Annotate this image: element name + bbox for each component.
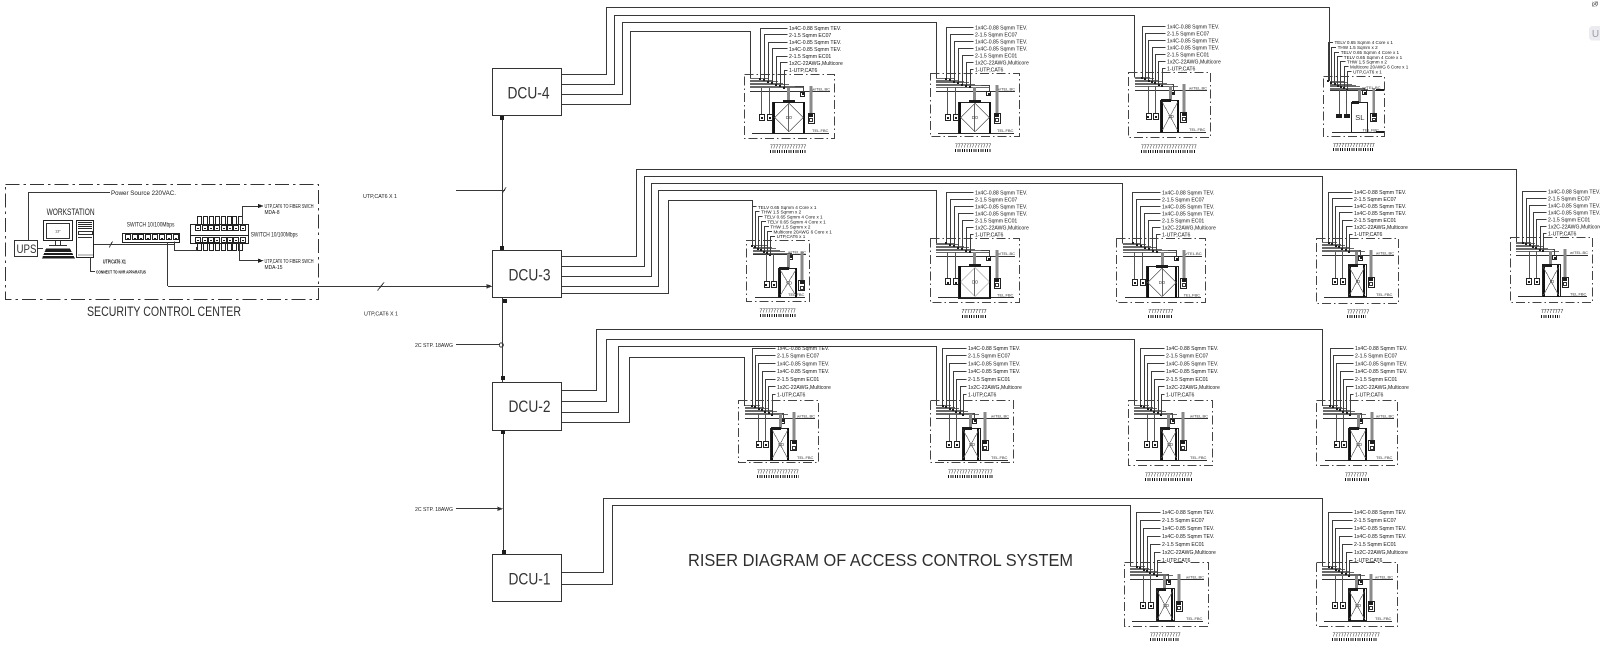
svg-text:7777777777777: 7777777777777	[955, 144, 991, 150]
svg-text:1x4C-0.85 Sqmm TEV.: 1x4C-0.85 Sqmm TEV.	[975, 204, 1027, 210]
svg-text:w/TEL.BC: w/TEL.BC	[997, 86, 1015, 91]
svg-text:TEL.FBC: TEL.FBC	[991, 455, 1008, 460]
svg-text:ID: ID	[1356, 279, 1361, 284]
svg-text:SL: SL	[1355, 113, 1364, 122]
svg-text:UTP,CAT6 x 1: UTP,CAT6 x 1	[1353, 70, 1382, 75]
svg-text:2-1.5 Sqmm EC01: 2-1.5 Sqmm EC01	[1162, 542, 1204, 548]
svg-text:2-1.5 Sqmm EC01: 2-1.5 Sqmm EC01	[789, 54, 831, 60]
svg-text:1x4C-0.85 Sqmm TEV.: 1x4C-0.85 Sqmm TEV.	[1354, 526, 1406, 532]
svg-text:DO: DO	[786, 115, 793, 120]
svg-text:TEL.FBC: TEL.FBC	[1186, 616, 1203, 621]
svg-text:DCU-2: DCU-2	[509, 398, 551, 416]
svg-text:UTP/CAT6 X1: UTP/CAT6 X1	[103, 259, 126, 265]
svg-text:2C STP. 18AWG: 2C STP. 18AWG	[415, 343, 453, 349]
svg-text:TEL.FBC: TEL.FBC	[1375, 616, 1392, 621]
svg-text:1-UTP,CAT6: 1-UTP,CAT6	[1354, 232, 1383, 238]
svg-text:1-UTP,CAT6: 1-UTP,CAT6	[975, 68, 1004, 74]
svg-text:2-1.5 Sqmm EC07: 2-1.5 Sqmm EC07	[968, 354, 1010, 360]
svg-text:1x4C-0.85 Sqmm TEV.: 1x4C-0.85 Sqmm TEV.	[1354, 534, 1406, 540]
svg-text:1-UTP,CAT6: 1-UTP,CAT6	[1354, 558, 1383, 564]
svg-text:1x4C-0.85 Sqmm TEV.: 1x4C-0.85 Sqmm TEV.	[1167, 46, 1219, 52]
svg-text:w/TEL.BC: w/TEL.BC	[1570, 250, 1588, 255]
svg-text:TEL.FBC: TEL.FBC	[1189, 127, 1206, 132]
svg-text:TEL.FBC: TEL.FBC	[997, 128, 1014, 133]
svg-text:DCU-4: DCU-4	[508, 85, 550, 103]
svg-text:1x4C-0.85 Sqmm TEV.: 1x4C-0.85 Sqmm TEV.	[1354, 204, 1406, 210]
svg-text:w/TEL.BC: w/TEL.BC	[812, 87, 830, 92]
svg-text:1x4C-0.88 Sqmm TEV.: 1x4C-0.88 Sqmm TEV.	[1162, 190, 1214, 196]
svg-text:777777777: 777777777	[962, 309, 987, 315]
svg-text:WORKSTATION: WORKSTATION	[47, 207, 95, 217]
svg-text:CONNECT TO NVR APPARATUS: CONNECT TO NVR APPARATUS	[96, 269, 146, 274]
svg-text:1x4C-0.85 Sqmm TEV.: 1x4C-0.85 Sqmm TEV.	[1167, 39, 1219, 45]
svg-text:SD: SD	[786, 280, 793, 285]
svg-text:1x2C-22AWG,Multicore: 1x2C-22AWG,Multicore	[777, 385, 831, 391]
svg-text:77777777777777777: 77777777777777777	[1333, 633, 1380, 639]
svg-text:13": 13"	[55, 229, 61, 234]
svg-text:UTP,CAT6 X 1: UTP,CAT6 X 1	[363, 194, 397, 200]
svg-text:2-1.5 Sqmm EC07: 2-1.5 Sqmm EC07	[1167, 32, 1209, 38]
svg-text:2-1.5 Sqmm EC01: 2-1.5 Sqmm EC01	[1548, 217, 1590, 223]
svg-text:1x2C-22AWG,Multicore: 1x2C-22AWG,Multicore	[789, 61, 843, 67]
svg-text:77777777: 77777777	[1541, 309, 1563, 315]
svg-text:w/TEL.BC: w/TEL.BC	[1375, 575, 1393, 580]
svg-text:SD: SD	[1167, 442, 1174, 447]
svg-text:1x2C-22AWG,Multicore: 1x2C-22AWG,Multicore	[1162, 225, 1216, 231]
svg-text:U: U	[1592, 29, 1599, 40]
svg-text:2-1.5 Sqmm EC01: 2-1.5 Sqmm EC01	[1167, 53, 1209, 59]
svg-text:1-UTP,CAT6: 1-UTP,CAT6	[789, 68, 818, 74]
svg-text:SD: SD	[778, 442, 785, 447]
svg-text:1x4C-0.88 Sqmm TEV.: 1x4C-0.88 Sqmm TEV.	[1162, 510, 1214, 516]
svg-text:2-1.5 Sqmm EC01: 2-1.5 Sqmm EC01	[968, 377, 1010, 383]
svg-text:TEL.FBC: TEL.FBC	[1184, 293, 1201, 298]
svg-text:2-1.5 Sqmm EC01: 2-1.5 Sqmm EC01	[1354, 542, 1396, 548]
svg-text:1x2C-22AWG,Multicore: 1x2C-22AWG,Multicore	[1548, 224, 1600, 230]
svg-text:1-UTP,CAT6: 1-UTP,CAT6	[1162, 232, 1191, 238]
svg-text:1x4C-0.85 Sqmm TEV.: 1x4C-0.85 Sqmm TEV.	[1548, 210, 1600, 216]
svg-text:1x2C-22AWG,Multicore: 1x2C-22AWG,Multicore	[1167, 60, 1221, 66]
svg-text:1-UTP,CAT6: 1-UTP,CAT6	[1355, 393, 1384, 399]
svg-text:UPS: UPS	[17, 242, 37, 256]
svg-text:1-UTP,CAT6: 1-UTP,CAT6	[968, 393, 997, 399]
svg-text:w/TEL.BC: w/TEL.BC	[1184, 251, 1202, 256]
svg-text:1-UTP,CAT6: 1-UTP,CAT6	[1548, 231, 1577, 237]
svg-text:1x4C-0.85 Sqmm TEV.: 1x4C-0.85 Sqmm TEV.	[777, 361, 829, 367]
svg-text:1x4C-0.85 Sqmm TEV.: 1x4C-0.85 Sqmm TEV.	[975, 211, 1027, 217]
svg-text:1x4C-0.88 Sqmm TEV.: 1x4C-0.88 Sqmm TEV.	[1355, 346, 1407, 352]
svg-text:1x4C-0.88 Sqmm TEV.: 1x4C-0.88 Sqmm TEV.	[789, 26, 841, 32]
svg-text:w/TEL.BC: w/TEL.BC	[1190, 414, 1208, 419]
svg-text:1x2C-22AWG,Multicore: 1x2C-22AWG,Multicore	[1354, 550, 1408, 556]
svg-text:1x4C-0.85 Sqmm TEV.: 1x4C-0.85 Sqmm TEV.	[1162, 526, 1214, 532]
svg-text:1x4C-0.85 Sqmm TEV.: 1x4C-0.85 Sqmm TEV.	[1355, 369, 1407, 375]
svg-text:2-1.5 Sqmm EC07: 2-1.5 Sqmm EC07	[975, 197, 1017, 203]
svg-text:2-1.5 Sqmm EC07: 2-1.5 Sqmm EC07	[1355, 354, 1397, 360]
svg-text:2-1.5 Sqmm EC07: 2-1.5 Sqmm EC07	[975, 33, 1017, 39]
svg-text:1x4C-0.85 Sqmm TEV.: 1x4C-0.85 Sqmm TEV.	[975, 47, 1027, 53]
svg-text:1x4C-0.88 Sqmm TEV.: 1x4C-0.88 Sqmm TEV.	[1548, 189, 1600, 195]
svg-text:1-UTP,CAT6: 1-UTP,CAT6	[1166, 393, 1195, 399]
svg-text:SD: SD	[1356, 442, 1363, 447]
svg-text:1-UTP,CAT6: 1-UTP,CAT6	[1167, 67, 1196, 73]
svg-text:2-1.5 Sqmm EC07: 2-1.5 Sqmm EC07	[1354, 197, 1396, 203]
svg-text:1-UTP,CAT6: 1-UTP,CAT6	[777, 393, 806, 399]
svg-text:SWITCH 10/100Mbps: SWITCH 10/100Mbps	[251, 231, 299, 238]
svg-text:7777777777777777: 7777777777777777	[948, 470, 993, 476]
svg-text:DO: DO	[972, 115, 979, 120]
svg-text:77777777: 77777777	[1345, 473, 1367, 479]
svg-text:1x2C-22AWG,Multicore: 1x2C-22AWG,Multicore	[1162, 550, 1216, 556]
svg-text:1x4C-0.88 Sqmm TEV.: 1x4C-0.88 Sqmm TEV.	[1354, 190, 1406, 196]
svg-text:TEL.FBC: TEL.FBC	[1570, 292, 1587, 297]
svg-text:TEL.FBC: TEL.FBC	[1190, 455, 1207, 460]
svg-text:1-UTP,CAT6: 1-UTP,CAT6	[975, 232, 1004, 238]
svg-text:777777777777777: 777777777777777	[1333, 143, 1375, 149]
svg-text:1x4C-0.85 Sqmm TEV.: 1x4C-0.85 Sqmm TEV.	[1548, 203, 1600, 209]
svg-text:DCU-3: DCU-3	[509, 267, 551, 285]
svg-text:MDA-15: MDA-15	[265, 265, 283, 271]
svg-text:UTP,CAT6 X 1: UTP,CAT6 X 1	[364, 311, 398, 317]
svg-text:SWITCH 10/100Mbps: SWITCH 10/100Mbps	[127, 222, 175, 229]
svg-text:w/TEL.BC: w/TEL.BC	[997, 251, 1015, 256]
svg-text:1x2C-22AWG,Multicore: 1x2C-22AWG,Multicore	[968, 385, 1022, 391]
svg-text:w/TEL.BC: w/TEL.BC	[1189, 85, 1207, 90]
svg-text:TEL.FBC: TEL.FBC	[997, 293, 1014, 298]
svg-text:Power Source 220VAC.: Power Source 220VAC.	[111, 190, 176, 197]
svg-text:7777777777777: 7777777777777	[770, 145, 806, 151]
svg-text:2-1.5 Sqmm EC01: 2-1.5 Sqmm EC01	[1355, 377, 1397, 383]
svg-text:DCU-1: DCU-1	[509, 571, 551, 589]
svg-text:1x4C-0.88 Sqmm TEV.: 1x4C-0.88 Sqmm TEV.	[968, 346, 1020, 352]
svg-text:1x4C-0.88 Sqmm TEV.: 1x4C-0.88 Sqmm TEV.	[1354, 510, 1406, 516]
svg-text:1x4C-0.85 Sqmm TEV.: 1x4C-0.85 Sqmm TEV.	[777, 369, 829, 375]
svg-text:7777777777777: 7777777777777	[760, 309, 796, 315]
svg-text:2-1.5 Sqmm EC01: 2-1.5 Sqmm EC01	[1354, 218, 1396, 224]
svg-text:2-1.5 Sqmm EC07: 2-1.5 Sqmm EC07	[789, 33, 831, 39]
svg-text:77777777: 77777777	[1347, 310, 1369, 316]
svg-text:TEL.FBC: TEL.FBC	[1376, 455, 1393, 460]
svg-text:2-1.5 Sqmm EC07: 2-1.5 Sqmm EC07	[1162, 518, 1204, 524]
svg-text:1x4C-0.88 Sqmm TEV.: 1x4C-0.88 Sqmm TEV.	[975, 26, 1027, 32]
svg-text:77777777777777777: 77777777777777777	[1145, 473, 1192, 479]
svg-text:1x4C-0.88 Sqmm TEV.: 1x4C-0.88 Sqmm TEV.	[975, 190, 1027, 196]
svg-text:2-1.5 Sqmm EC07: 2-1.5 Sqmm EC07	[1162, 197, 1204, 203]
svg-text:1x4C-0.85 Sqmm TEV.: 1x4C-0.85 Sqmm TEV.	[1162, 534, 1214, 540]
svg-text:1x4C-0.85 Sqmm TEV.: 1x4C-0.85 Sqmm TEV.	[789, 40, 841, 46]
svg-text:777777777: 777777777	[1148, 309, 1173, 315]
svg-text:UTP,CAT6 x 1: UTP,CAT6 x 1	[777, 234, 806, 239]
svg-text:3D: 3D	[1168, 114, 1175, 119]
svg-text:w/TEL.BC: w/TEL.BC	[991, 414, 1009, 419]
svg-text:1x4C-0.88 Sqmm TEV.: 1x4C-0.88 Sqmm TEV.	[1167, 25, 1219, 31]
svg-text:1x4C-0.85 Sqmm TEV.: 1x4C-0.85 Sqmm TEV.	[789, 47, 841, 53]
svg-text:1x4C-0.88 Sqmm TEV.: 1x4C-0.88 Sqmm TEV.	[777, 346, 829, 352]
svg-text:MDA-8: MDA-8	[265, 210, 280, 216]
svg-text:2-1.5 Sqmm EC07: 2-1.5 Sqmm EC07	[1166, 354, 1208, 360]
svg-text:777777777777777: 777777777777777	[757, 470, 799, 476]
svg-text:77777777777: 77777777777	[1150, 633, 1181, 639]
svg-text:77777777777777777777: 77777777777777777777	[1141, 145, 1197, 151]
svg-text:TEL.FBC: TEL.FBC	[1376, 292, 1393, 297]
svg-text:TEL.FBC: TEL.FBC	[812, 128, 829, 133]
svg-text:1x4C-0.88 Sqmm TEV.: 1x4C-0.88 Sqmm TEV.	[1166, 346, 1218, 352]
svg-text:1x4C-0.85 Sqmm TEV.: 1x4C-0.85 Sqmm TEV.	[1355, 361, 1407, 367]
svg-text:1x4C-0.85 Sqmm TEV.: 1x4C-0.85 Sqmm TEV.	[968, 369, 1020, 375]
svg-text:w/TEL.BC: w/TEL.BC	[1376, 414, 1394, 419]
svg-text:1-UTP,CAT6: 1-UTP,CAT6	[1162, 558, 1191, 564]
svg-text:2-1.5 Sqmm EC07: 2-1.5 Sqmm EC07	[1548, 196, 1590, 202]
svg-text:2C STP. 18AWG: 2C STP. 18AWG	[415, 507, 453, 513]
svg-text:1x4C-0.85 Sqmm TEV.: 1x4C-0.85 Sqmm TEV.	[1166, 369, 1218, 375]
svg-text:2-1.5 Sqmm EC01: 2-1.5 Sqmm EC01	[1166, 377, 1208, 383]
svg-text:1x4C-0.85 Sqmm TEV.: 1x4C-0.85 Sqmm TEV.	[975, 40, 1027, 46]
svg-text:1x2C-22AWG,Multicore: 1x2C-22AWG,Multicore	[975, 225, 1029, 231]
svg-text:w/TEL.BC: w/TEL.BC	[1186, 575, 1204, 580]
svg-text:DO: DO	[972, 280, 979, 285]
svg-text:1x4C-0.85 Sqmm TEV.: 1x4C-0.85 Sqmm TEV.	[1162, 204, 1214, 210]
svg-text:2-1.5 Sqmm EC07: 2-1.5 Sqmm EC07	[1354, 518, 1396, 524]
svg-text:1x2C-22AWG,Multicore: 1x2C-22AWG,Multicore	[975, 61, 1029, 67]
svg-text:1x4C-0.85 Sqmm TEV.: 1x4C-0.85 Sqmm TEV.	[968, 361, 1020, 367]
svg-text:SECURITY CONTROL CENTER: SECURITY CONTROL CENTER	[87, 304, 241, 319]
svg-text:RISER DIAGRAM OF ACCESS CONTRO: RISER DIAGRAM OF ACCESS CONTROL SYSTEM	[688, 550, 1073, 570]
svg-text:SD: SD	[969, 442, 976, 447]
svg-text:2-1.5 Sqmm EC01: 2-1.5 Sqmm EC01	[975, 54, 1017, 60]
svg-text:SD: SD	[1163, 603, 1170, 608]
svg-text:1x4C-0.85 Sqmm TEV.: 1x4C-0.85 Sqmm TEV.	[1162, 211, 1214, 217]
svg-text:w/TEL.BC: w/TEL.BC	[1376, 251, 1394, 256]
svg-text:1x4C-0.85 Sqmm TEV.: 1x4C-0.85 Sqmm TEV.	[1354, 211, 1406, 217]
svg-text:w/TEL.BC: w/TEL.BC	[797, 414, 815, 419]
svg-text:2-1.5 Sqmm EC01: 2-1.5 Sqmm EC01	[975, 218, 1017, 224]
svg-text:ID: ID	[1550, 279, 1555, 284]
svg-text:SD: SD	[1355, 603, 1362, 608]
svg-text:DO: DO	[1159, 280, 1166, 285]
svg-text:2-1.5 Sqmm EC01: 2-1.5 Sqmm EC01	[777, 377, 819, 383]
svg-text:1x2C-22AWG,Multicore: 1x2C-22AWG,Multicore	[1355, 385, 1409, 391]
svg-text:2-1.5 Sqmm EC01: 2-1.5 Sqmm EC01	[1162, 218, 1204, 224]
svg-text:1x2C-22AWG,Multicore: 1x2C-22AWG,Multicore	[1354, 225, 1408, 231]
svg-text:1x4C-0.85 Sqmm TEV.: 1x4C-0.85 Sqmm TEV.	[1166, 361, 1218, 367]
svg-text:1x2C-22AWG,Multicore: 1x2C-22AWG,Multicore	[1166, 385, 1220, 391]
svg-text:2-1.5 Sqmm EC07: 2-1.5 Sqmm EC07	[777, 354, 819, 360]
svg-text:TEL.FBC: TEL.FBC	[797, 455, 814, 460]
